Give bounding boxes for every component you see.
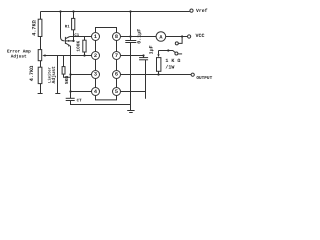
resistor 5K <box>63 56 65 67</box>
pin 2 <box>92 52 100 60</box>
rheostat arrow <box>158 51 160 55</box>
wire VCC row <box>131 36 157 38</box>
wire rheostat wiper <box>159 51 176 53</box>
wire pin3 <box>71 74 92 76</box>
op-amp U1 package outline top <box>96 28 117 33</box>
svg-text:Adjust: Adjust <box>51 66 57 83</box>
svg-text:OUTPUT: OUTPUT <box>196 76 212 81</box>
VCC terminal <box>188 35 191 38</box>
node A: junction top rail / base wire <box>59 10 61 12</box>
op-amp U1 package outline bottom <box>96 96 117 100</box>
ammeter A <box>156 32 166 42</box>
svg-text:1: 1 <box>94 34 97 40</box>
wire base drop <box>61 12 65 41</box>
svg-text:2: 2 <box>94 53 97 59</box>
wire pin6 / output row <box>121 74 192 76</box>
pin 7 <box>113 52 121 60</box>
svg-text:Adjust: Adjust <box>11 53 27 59</box>
node junction 100K / wiper rail <box>83 54 85 56</box>
wire drop from wiper rail <box>57 56 59 94</box>
pin 8 <box>113 33 121 41</box>
pin 4 <box>92 88 100 96</box>
connector upper <box>178 37 182 44</box>
node junction VCC <box>181 35 183 37</box>
svg-text:3: 3 <box>94 72 97 78</box>
wire pin8 to bus <box>121 36 131 38</box>
wire pin1 <box>70 36 92 38</box>
wire bus lower <box>130 43 132 111</box>
node junction pin8 / bus <box>129 35 131 37</box>
svg-text:1 K Ω: 1 K Ω <box>165 58 180 64</box>
Vref terminal <box>190 9 193 12</box>
ground <box>127 110 134 112</box>
wire pin7 to cap <box>121 55 144 57</box>
OUTPUT terminal <box>191 73 194 76</box>
op-amp U1 package outline right links <box>116 40 118 87</box>
wire bus upper <box>130 12 132 41</box>
resistor 4.7K upper <box>40 12 42 20</box>
svg-text:/1W: /1W <box>165 64 174 70</box>
wire pin5 <box>121 91 146 93</box>
wire top rail <box>41 11 190 13</box>
svg-text:7: 7 <box>115 53 118 59</box>
pin 1 <box>92 33 100 41</box>
connector lower <box>175 52 178 55</box>
pin 5 <box>113 88 121 96</box>
svg-text:Vref: Vref <box>196 8 208 14</box>
node junction pin7 wire / cap 1uF <box>142 54 144 56</box>
svg-text:4.7KΩ: 4.7KΩ <box>31 20 37 36</box>
resistor 4.7K lower <box>40 61 42 68</box>
svg-text:CT: CT <box>77 98 83 103</box>
node junction top rail / bus <box>129 10 131 12</box>
svg-text:C1: C1 <box>74 33 79 38</box>
potentiometer Error Amp Adjust <box>38 50 42 61</box>
terminal bar middle <box>55 93 60 95</box>
svg-text:1μF: 1μF <box>149 45 155 54</box>
resistor R1 <box>73 12 75 19</box>
capacitor 1uF <box>143 56 145 58</box>
node junction wiper wire <box>167 49 169 51</box>
diode C1 arrow <box>65 40 73 42</box>
svg-text:100K: 100K <box>75 41 81 52</box>
wire pin5 stub <box>145 92 147 99</box>
node junction top rail / R1 <box>72 10 74 12</box>
svg-text:A: A <box>159 34 163 40</box>
op-amp U1 package outline left links <box>95 40 97 87</box>
node junction R1 / diode <box>72 40 74 42</box>
node junction emitter / pin4 / CT <box>69 90 71 92</box>
capacitor CT <box>70 92 72 99</box>
svg-text:4: 4 <box>94 89 98 95</box>
svg-text:8: 8 <box>115 34 118 40</box>
capacitor 0.1uF <box>125 40 136 42</box>
svg-text:R1: R1 <box>65 25 70 30</box>
resistor 1K 1W <box>157 58 161 72</box>
transistor Q1 <box>64 37 66 44</box>
pin 3 <box>92 71 100 79</box>
node junction emitter / pin3 <box>69 73 71 75</box>
svg-text:5: 5 <box>115 89 118 95</box>
wire pin4 <box>71 91 92 93</box>
wire emitter drop <box>70 46 72 92</box>
svg-text:4.7KΩ: 4.7KΩ <box>29 66 35 82</box>
svg-text:5KΩ: 5KΩ <box>64 76 70 85</box>
terminal bar left <box>38 93 43 95</box>
pin 6 <box>113 71 121 79</box>
svg-text:6: 6 <box>115 72 118 78</box>
node junction rheostat / output <box>157 73 159 75</box>
svg-text:VCC: VCC <box>196 33 205 39</box>
resistor 100K <box>84 37 86 41</box>
